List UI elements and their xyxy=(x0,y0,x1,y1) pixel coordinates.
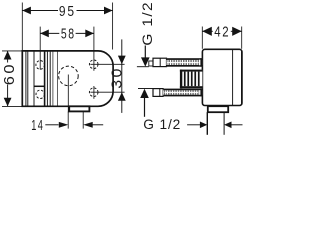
top stud hex xyxy=(153,58,167,66)
hole circle bottom-right (dashed) xyxy=(89,88,98,97)
node: center line top-left hole / 58 ext left xyxy=(39,27,41,70)
arrow 60 down xyxy=(4,98,12,107)
wire: 60 dim line xyxy=(7,51,9,63)
wire: 95 dim line xyxy=(22,10,58,12)
middle striped piece xyxy=(180,70,203,89)
body outline xyxy=(22,51,113,106)
big circle (dashed, pivot) xyxy=(59,66,79,86)
wire: 14 leader lines xyxy=(45,124,58,126)
block body xyxy=(202,49,242,105)
wire: 60 ext lines xyxy=(2,50,22,52)
wire: plate inner vertical lines xyxy=(25,52,27,106)
arrow pipe right (left-pointing) xyxy=(224,122,231,129)
bottom stud thread xyxy=(163,89,202,97)
wire: big circle center line xyxy=(67,75,69,113)
arrow 60 up xyxy=(4,51,12,60)
svg-text:G 1/2: G 1/2 xyxy=(143,116,181,132)
arrow G1/2 bottom (up) xyxy=(140,89,149,98)
hole circle top-right (dashed) xyxy=(89,60,98,69)
G 1/2 bottom leader (up arrow tail) xyxy=(144,97,146,117)
node: center line bottom-right hole xyxy=(93,86,95,99)
G 1/2 pipe leader right tail xyxy=(231,124,242,126)
svg-text:58: 58 xyxy=(61,27,76,43)
wire: 95 ext lines xyxy=(21,3,23,51)
top stud left line xyxy=(137,66,149,68)
svg-text:42: 42 xyxy=(214,25,230,41)
svg-text:30: 30 xyxy=(109,66,125,89)
arrow 14 right-pointing xyxy=(59,122,69,128)
G 1/2 pipe leader left xyxy=(187,124,200,126)
bottom stud hex xyxy=(153,89,163,97)
arrow 42 right xyxy=(232,27,242,36)
top stud tube xyxy=(149,61,153,66)
wire: panel divider xyxy=(34,85,45,87)
bottom stud top edge line xyxy=(138,88,153,90)
foot side view xyxy=(208,106,228,112)
wire: 42 ext lines xyxy=(201,27,203,49)
arrow 14 left-pointing xyxy=(83,122,93,128)
arrow 30 up (bottom) xyxy=(118,92,126,101)
arrow pipe left (right-pointing) xyxy=(200,122,207,129)
node: center line top-right hole / 58 ext right xyxy=(93,27,95,71)
arrow 95 right xyxy=(104,7,113,15)
foot tab front view xyxy=(69,106,89,111)
hole circle bottom-left (dashed) xyxy=(36,90,44,98)
arrow 30 down (top) xyxy=(118,56,126,65)
wire: 42 dim line xyxy=(202,30,213,32)
arrow 42 left xyxy=(202,27,212,36)
hole circle top-left (dashed) xyxy=(36,61,45,70)
wire: hole horizontal center lines / 30 extension lines xyxy=(90,63,124,65)
G 1/2 top leader xyxy=(144,46,146,59)
top stud thread xyxy=(167,58,203,66)
arrow G1/2 top (down) xyxy=(141,57,150,66)
wire: block inner vertical line xyxy=(232,50,234,105)
arrow 58 right xyxy=(85,30,94,38)
wire: 58 dim line xyxy=(40,32,59,34)
arrow 58 left xyxy=(40,30,49,38)
wire: 30 dim line xyxy=(121,39,123,113)
svg-text:95: 95 xyxy=(59,4,76,20)
svg-text:14: 14 xyxy=(31,118,44,134)
svg-text:60: 60 xyxy=(2,62,18,85)
technical dimension drawing: wall-mounted shower holder, front view (left) and side view (right) xyxy=(0,0,247,135)
pipe below foot xyxy=(206,112,208,135)
svg-text:G 1/2: G 1/2 xyxy=(139,1,155,46)
wire: pipe ext lines below tab xyxy=(67,112,69,129)
arrow 95 left xyxy=(22,7,31,15)
